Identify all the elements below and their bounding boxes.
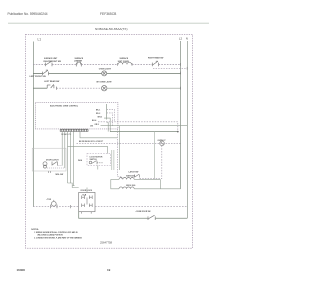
- svg-text:N: N: [186, 37, 188, 41]
- svg-text:SURFACE: SURFACE: [120, 57, 129, 60]
- wire box A dash 2: [47, 167, 65, 169]
- wire row1 segment a: [33, 63, 45, 65]
- svg-text:OR-5: OR-5: [95, 124, 99, 126]
- wire comb drop 3: [67, 132, 69, 183]
- wire bundle right of lock box a: [111, 150, 113, 170]
- wire bundle right of lock box b: [113, 150, 115, 170]
- wire EOC pin3: [104, 118, 110, 132]
- svg-text:OVEN LT: OVEN LT: [158, 140, 167, 142]
- svg-text:RD-2: RD-2: [96, 113, 100, 115]
- wire latch dashed: [140, 178, 162, 180]
- wire link drop: [107, 146, 109, 153]
- lock motor M1: [43, 162, 58, 169]
- wire row2 lead: [33, 72, 43, 74]
- motor lamp DS3: [160, 141, 165, 146]
- electronic oven control EOC box: [35, 102, 118, 128]
- wire row1 segment c: [81, 63, 117, 65]
- wire bottom solid row a: [79, 212, 148, 219]
- junction tick pilot-N: [186, 67, 188, 70]
- wire N vertical bus: [186, 41, 188, 218]
- relay box DLB: [79, 192, 95, 211]
- connector ticks below box: [49, 171, 51, 173]
- svg-text:RIGHT REAR SW: RIGHT REAR SW: [148, 56, 164, 59]
- svg-text:LEFT FRONT SW: LEFT FRONT SW: [30, 76, 46, 78]
- junction tick row1-L2: [180, 63, 182, 66]
- wire to neutral N: [101, 125, 188, 127]
- svg-text:WH-3: WH-3: [98, 117, 103, 119]
- wire row3 segment b: [107, 87, 181, 89]
- svg-text:DOOR LATCH: DOOR LATCH: [46, 158, 59, 161]
- wire element to L2: [134, 188, 180, 190]
- relay contact a: [82, 196, 85, 200]
- svg-text:Publication No. 5995440244: Publication No. 5995440244: [8, 12, 48, 16]
- wire link row drop: [67, 145, 69, 147]
- wire below lock box: [97, 166, 99, 170]
- wire row1 segment b: [52, 63, 76, 65]
- svg-text:1 2 3 4 5 6 7 8: 1 2 3 4 5 6 7 8: [61, 133, 71, 136]
- latch switch S7: [135, 174, 140, 177]
- svg-text:2. CONNECTORS SHOWN -P- ARE P: 2. CONNECTORS SHOWN -P- ARE PART OF THE …: [34, 237, 83, 240]
- door lock assembly box: [32, 148, 66, 171]
- wire element bracket right: [159, 179, 161, 188]
- wire row3 segment: [57, 87, 102, 89]
- wire elbow left: [68, 183, 79, 188]
- infinite switch S4: [47, 84, 56, 89]
- svg-text:L1: L1: [38, 38, 42, 42]
- svg-text:BU-4: BU-4: [92, 119, 96, 122]
- wire row2 segment b: [107, 72, 181, 74]
- wire EOC vertical feed: [106, 104, 108, 120]
- junction tick row3-L2: [180, 87, 182, 90]
- wire EOC edge drop V1: [117, 129, 121, 179]
- wire link row: [68, 145, 108, 147]
- svg-text:FEF365CB: FEF365CB: [100, 12, 117, 16]
- wire EOC pin1: [107, 109, 115, 121]
- wire row2 segment: [49, 72, 102, 74]
- header rule: [8, 22, 209, 24]
- svg-text:UNLOCKED (CLEAN) POSITION: UNLOCKED (CLEAN) POSITION: [37, 234, 63, 237]
- wire EOC edge drop V2: [118, 126, 120, 170]
- junction dot: [177, 131, 179, 133]
- wire bottom solid row b: [155, 217, 187, 219]
- oven lamp DS2: [102, 86, 107, 91]
- svg-text:LATCH SW: LATCH SW: [129, 170, 139, 173]
- wire L2 vertical bus: [180, 41, 182, 189]
- svg-text:OVEN LIGHT: OVEN LIGHT: [99, 69, 112, 71]
- svg-text:BK RD WH BU OR YL GY BR: BK RD WH BU OR YL GY BR VT: [79, 141, 103, 143]
- broil element R3: [119, 187, 134, 189]
- EOC terminal comb strip: [60, 129, 88, 131]
- wire row3 lead: [33, 87, 47, 89]
- svg-text:16308: 16308: [17, 268, 26, 272]
- svg-text:L2: L2: [179, 37, 183, 41]
- wire relay top stub: [86, 188, 88, 193]
- wire dashed mid: [98, 122, 178, 132]
- svg-text:MDL SW: MDL SW: [56, 174, 64, 176]
- svg-text:LEFT REAR SW: LEFT REAR SW: [44, 80, 59, 83]
- indicator lamp DS1: [102, 71, 107, 76]
- wire element bracket left: [111, 179, 119, 188]
- svg-text:• TOD: • TOD: [46, 199, 52, 201]
- infinite switch S2: [152, 61, 158, 66]
- schematic frame: [26, 34, 193, 248]
- surface unit element R1 (coil): [118, 62, 132, 66]
- wire comb drop 4: [70, 132, 72, 183]
- svg-text:25647758: 25647758: [100, 241, 112, 245]
- wire lower dashed bus right: [95, 206, 187, 208]
- wire box A dash 1: [58, 165, 63, 167]
- infinite switch S3: [43, 70, 49, 75]
- svg-text:SURFACE UNIT: SURFACE UNIT: [44, 57, 58, 60]
- svg-text:19: 19: [107, 268, 111, 272]
- oven door switch S6: [148, 215, 155, 220]
- relay bottom pins: [81, 212, 83, 214]
- relay link: [86, 198, 88, 205]
- wire drop mid vertical: [154, 132, 156, 179]
- relay contact b: [89, 196, 92, 200]
- junction tick row2-L2: [180, 72, 182, 75]
- wire harness dashed long: [77, 142, 181, 144]
- thermal cutout TOD: [51, 200, 57, 208]
- svg-text:W/ OVEN LIGHT: W/ OVEN LIGHT: [96, 82, 112, 84]
- wire element right leads: [134, 178, 160, 180]
- svg-text:RIGHT FRONT SW: RIGHT FRONT SW: [44, 61, 62, 63]
- wire main L2 mid: [110, 131, 178, 133]
- wire row1 segment e: [159, 63, 181, 65]
- wire element top lead: [111, 178, 119, 180]
- wire comb drop 1: [61, 132, 63, 166]
- thermal limiter F1 (bump): [76, 62, 81, 66]
- svg-text:DOOR LOCK: DOOR LOCK: [81, 190, 93, 192]
- wire row1 segment d: [132, 63, 152, 65]
- lock switch S5: [89, 161, 103, 165]
- wire EOC pin2: [107, 113, 113, 126]
- bake element R2: [119, 177, 134, 179]
- wire pilot to neutral: [153, 67, 187, 69]
- wire comb drop 2: [64, 132, 66, 168]
- infinite switch S1: [45, 61, 52, 66]
- wire lower dashed bus left: [33, 206, 79, 208]
- wire comb elbow to nest: [80, 132, 117, 138]
- svg-text:ELECTRONIC OVEN CONTROL: ELECTRONIC OVEN CONTROL: [50, 105, 79, 107]
- svg-text:NOTES:: NOTES:: [31, 229, 39, 231]
- svg-text:NOBASE-5D-65AA(TX): NOBASE-5D-65AA(TX): [95, 27, 128, 31]
- wire comb drop 5: [73, 132, 75, 186]
- wire EOC pin4: [107, 123, 109, 132]
- relay contact c: [82, 204, 85, 208]
- svg-text:BROIL 3000: BROIL 3000: [126, 185, 135, 187]
- svg-text:DLM: DLM: [78, 160, 83, 162]
- svg-text:BK-1: BK-1: [96, 109, 100, 111]
- svg-text:• OVEN DOOR SW: • OVEN DOOR SW: [135, 211, 151, 213]
- relay contact d: [89, 204, 92, 208]
- svg-text:CN1: CN1: [90, 126, 93, 128]
- lamp drop dashed: [161, 146, 163, 179]
- wire L1 vertical bus: [32, 42, 34, 207]
- door lock motor box: [87, 154, 111, 166]
- junction tick drop-bus: [70, 205, 72, 208]
- svg-text:BAKE 2600: BAKE 2600: [126, 175, 135, 178]
